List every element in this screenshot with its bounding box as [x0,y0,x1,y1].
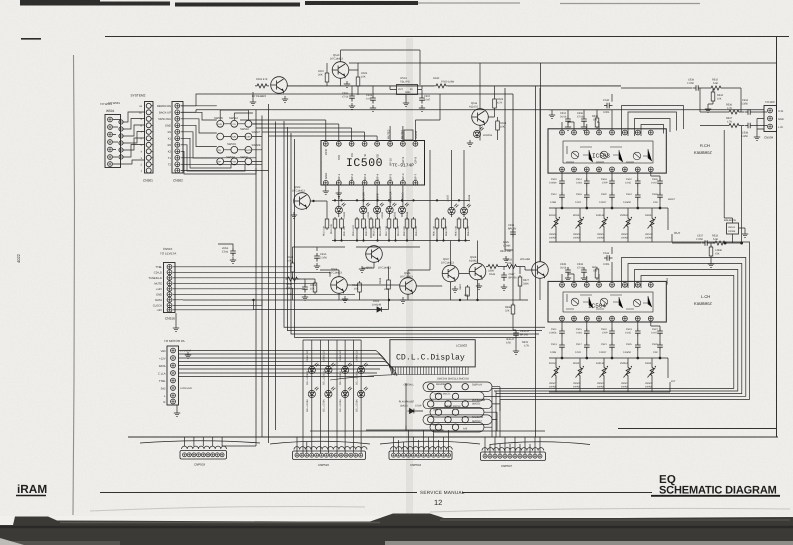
capacitor C531 [603,252,613,266]
VR501 [620,362,632,389]
nested loops above IC503 [622,106,684,136]
resistor R530 100 [592,115,599,129]
IC503 top pins [560,130,654,135]
ground under R526 [503,256,509,262]
LED row1 labels [306,371,359,385]
IC500 top pins [323,141,417,146]
ground below CN504 [754,134,760,140]
wires IC504 bottom to caps [549,247,670,392]
resistor R504 [496,119,507,132]
wires dropping into CNP515 [297,437,361,454]
capacitor C503 [366,94,376,111]
resistor R513 column [310,201,329,236]
LED LD507 [448,203,459,214]
capacitor C506 [342,92,355,109]
pin column beside W501 [119,120,123,159]
resistor R508 [287,256,294,274]
resistor R520 fusible [433,77,455,88]
LED54 [358,362,369,373]
wires Q510 area [327,50,498,141]
resistor R541 330K [486,265,500,277]
wires CN513 to display area [179,351,398,377]
bundle fan above connectors [140,441,590,445]
left page edge shadow line [73,55,75,515]
resistor column R515 [369,217,375,236]
resistor R526 [500,241,511,253]
resistor column R516 [376,217,382,236]
transistor Q508 [469,256,486,289]
L.CH tuning volume row: VR507 [549,362,560,389]
switch membrane row 1 [403,382,492,392]
op-amp IC503 body [548,129,666,173]
IC503 bottom pins [560,167,654,172]
capacitor C537 resistor R533 [696,235,727,246]
resistor column R517 [385,217,391,236]
resistor column R519 [330,217,337,234]
capacitor C539 [687,79,702,91]
transistor Q511 [469,102,488,125]
connector CNP503 mid [389,447,452,467]
VR502 [620,214,632,240]
LED58 [358,386,369,397]
switch matrix cluster SW505-SW512 [214,117,261,165]
ground near switch cluster [250,99,256,105]
label R.CH KIA8590Z [694,143,712,155]
resistor R538 [505,303,515,316]
resistor R503 [493,97,504,110]
LED LD503 [360,202,371,213]
capacitor row A under IC504: C511 [549,328,565,337]
transistor Q506 [400,272,417,303]
connector CNP503 left [180,446,227,466]
grounds IC503 caps [565,124,571,130]
LED53 [342,362,353,373]
ground R534 [705,106,711,112]
capacitor C533 47/16 [577,263,587,276]
wires CN502 to right [181,94,513,171]
bottom dark band [0,514,793,545]
switch membrane row 5 [423,415,492,425]
transistor Q510 [330,54,350,87]
resistor R510 [286,277,300,296]
IC500 body [321,141,425,186]
VR510 [645,214,656,240]
capacitor row B: C513 [550,342,565,354]
connector CNP515 [293,447,367,467]
VR509 [645,362,656,389]
wires switch cluster staircase [181,92,262,174]
resistor R534 [711,90,723,103]
connector CN504 TO MIC [764,100,784,140]
bus under IC500 with junction dots [332,199,470,201]
capacitor C528 [652,192,663,204]
LED LD504 [374,202,385,213]
switch cluster stem wires [310,383,545,431]
transistor Q503 [291,186,315,218]
resistor column R561 [433,217,439,236]
vertical feeds to IC500 top [240,94,440,141]
switch membrane row 6 [430,423,484,433]
LED LD508 [460,203,471,214]
capacitor C518 [601,178,615,187]
resistor R507 [318,70,329,84]
switch membrane row 2 [430,392,484,402]
resistor column R562 [442,217,448,236]
transistor Q505 [359,246,392,273]
resistor column R525b [412,217,418,236]
wires balance [672,126,743,244]
wires CN501 to CN502 labels region [151,106,153,165]
fold faint lines [90,507,365,512]
resistor R529 [522,341,529,348]
VR508 [573,214,584,240]
capacitor C519 [601,328,615,337]
capacitor C541 with ground [218,244,236,263]
capacitor row B: C512 [550,192,565,204]
resistor R520b 33K [459,284,469,298]
resistor column R523b [403,217,409,236]
rotated source labels under IC500 [338,191,405,203]
rotated LED labels [343,194,471,219]
resistor R509 [310,281,317,294]
capacitor C502 [419,95,431,111]
IC504 bottom pins [560,316,654,321]
IP501 regulator block [397,77,418,95]
LED57 [342,386,353,397]
resistor R536 [726,104,741,115]
capacitor C534 [741,99,754,115]
bottom rule with SERVICE MANUAL break [100,492,652,494]
wires to CN504 [700,88,767,129]
capacitor C505 [302,284,308,300]
diode D502 [400,405,422,414]
LED SEL.LED row1: LED51 [308,362,319,373]
resistor R506 [356,72,368,88]
capacitor C508 [508,224,517,238]
schematic frame right border [776,37,778,438]
resistor R505 [255,78,269,88]
switch membrane row 4 [430,405,484,417]
long bus y300 [183,299,528,301]
resistor R531 [592,266,599,280]
ground C540 [513,348,519,354]
capacitor C514 [576,178,590,187]
top torn dark scan line [20,3,418,5]
left title underline [16,495,46,497]
grounds under IC500 left pins [323,188,329,194]
capacitor C527 [651,328,663,337]
schematic frame top border [105,36,789,38]
ground under IP501 [403,100,409,106]
ground right of CN513 [185,352,191,358]
capacitor C538 [741,123,754,138]
capacitor C535 20/16 [560,263,571,276]
resistor column R564 [464,217,470,236]
connector CN502 [157,102,183,183]
connector CN513 TO MOTOR [158,339,193,405]
capacitor C530 [603,99,613,114]
capacitor C540 [506,330,530,345]
op-amp IC504 body [548,281,666,322]
resistor R525 [505,259,519,269]
LED52 [325,362,336,373]
transistor Q509 [520,258,548,278]
capacitor C50x 2.2/50 [314,253,328,269]
bus y109.8 GND [181,110,764,113]
long ground bus line above connectors [128,436,778,438]
switch membrane row 3 [399,399,492,409]
capacitor C515 [576,328,590,337]
label L.CH KIA8590Z [694,294,712,306]
capacitor C524 [623,192,641,204]
wires CN515 to right [173,267,355,310]
wire verticals pin to bus [335,150,466,241]
title underline [651,495,780,497]
LED array column wires [303,340,361,450]
resistor R535 15K [708,243,723,267]
VR505 [573,362,584,389]
capacitor C521 [599,342,615,354]
capacitor C529 [652,342,663,354]
transistor Q501 [252,77,288,103]
LED LD506 [398,202,409,213]
connector CN515 TO LEVETA [148,247,176,321]
wires dropping into CNP507 [485,388,540,454]
LCD pin comb [330,367,468,380]
grounds IC504 caps [565,275,571,281]
bus y85.9 [287,85,621,87]
capacitor row A under IC503: C510 [549,178,565,187]
wires W501 to CN501 [113,112,145,164]
VR504 [596,214,608,240]
ground left of IC503 [549,112,555,118]
LCD display module outer box [390,340,475,367]
bus lower with junction dots [332,239,470,241]
IC500 pin labels top [324,148,418,166]
vertical long feeds x513 x535 x540 [505,63,541,437]
resistor column R563 [455,217,461,236]
transistor Q504 [329,268,348,302]
bottom-left pale notch [0,538,24,545]
LED KS561 resistor texts row1 [306,349,359,362]
small dash top-left [21,38,41,40]
LED LD501 [467,126,493,146]
capacitor C520 [599,192,615,204]
capacitor C517 [575,342,590,354]
LED row2: LED55 [308,386,319,397]
connector CN501 SYSTEM2 [131,94,154,183]
bottom right lighter strip [385,541,793,545]
transistor Q507 [441,258,459,292]
wires dropping into CNP503 left [185,437,257,446]
resistor column R523 [362,217,368,236]
diode D501 [372,300,384,312]
schematic frame bottom-right border [618,428,777,430]
capacitor C525 [623,342,641,354]
wires IC503 bottom to caps [549,172,672,242]
wires dropping into CNP503 mid [366,426,449,454]
resistor column R522 [352,217,359,236]
VR503 [596,362,608,389]
connector W501 [100,102,121,168]
resistor R527 [518,275,529,288]
wires transistor row [254,88,541,310]
LED LD505 [386,202,397,213]
connector CNP507 [481,448,546,468]
wires C539 R532 [621,88,741,112]
ground below CN515 [173,325,179,331]
capacitor C516 [575,192,590,204]
IC504 top pins [560,282,654,287]
IC500 pin labels bottom [324,173,418,180]
LED56 [325,386,336,397]
bus y63 [349,62,777,64]
resistor R511 [352,281,361,294]
capacitor C567 [501,272,518,290]
resistor R532 [709,79,723,91]
nested loops above IC504 [492,242,750,399]
resistor column R521 [340,217,346,236]
bottom band streaks [0,526,793,529]
page crease vertical band [406,38,413,518]
IC503 top pin feeds [549,94,612,130]
IC500 bottom pins [323,180,417,185]
resistor column R518 [394,217,400,236]
LED LD502 [335,202,346,213]
ground below CN513 [174,410,180,416]
R.CH tuning volume row: VR506 [549,214,560,240]
balance control VR511 [724,219,748,237]
resistor R537 [726,117,741,128]
LED row2 labels [306,399,359,412]
capacitor C523 [625,328,641,337]
capacitor C504 20/16 [560,112,571,125]
capacitor C536 47/16 [577,112,587,125]
capacitor C522 [625,178,641,187]
capacitor C526 [651,178,663,187]
resistor R524 [379,277,390,291]
nested loop left verticals [256,104,545,443]
